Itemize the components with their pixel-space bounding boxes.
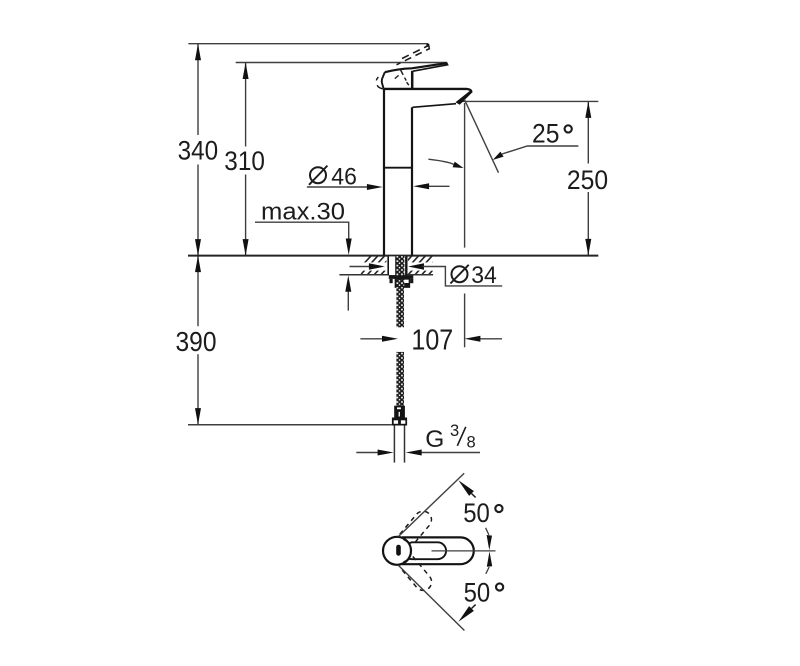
dashed arc left of dome (raised handle)	[376, 77, 378, 83]
dimension 107 arrows	[360, 338, 383, 340]
svg-text:107: 107	[411, 324, 453, 356]
counter underside line	[339, 274, 433, 276]
dimension arrowheads 310	[243, 63, 249, 80]
dashed raised lever bottom edge	[397, 48, 431, 64]
bottom view: handle top view outer left circle	[383, 537, 411, 565]
faucet body right edge	[411, 107, 413, 255]
dimension line 310 vertical	[245, 63, 247, 256]
handle front face	[411, 71, 414, 88]
svg-text:340: 340	[178, 136, 219, 166]
50 degree lower angle line	[398, 565, 464, 630]
dimension arrowheads 340	[195, 44, 201, 61]
label 310	[224, 147, 267, 175]
50 degree upper arrowhead	[458, 480, 474, 496]
counter cross-section hatching	[352, 254, 447, 277]
bottom view outer body	[402, 537, 474, 564]
spout top edge	[384, 89, 471, 91]
extension line top (340 reference at handle max height)	[188, 43, 428, 45]
G3/8 dimension arrows	[356, 452, 381, 454]
50 degree lower arrowhead	[458, 606, 474, 622]
25 degree leader line	[502, 146, 578, 154]
handle lever blade top edge	[385, 63, 447, 72]
max.30 opposing arrow under counter	[347, 292, 349, 311]
dimension line 250 vertical	[587, 101, 589, 255]
dashed raised lever inner strokes	[401, 70, 407, 81]
connection tube G3/8	[393, 426, 395, 463]
svg-text:3: 3	[450, 422, 459, 440]
dimension line 340/390 vertical	[197, 44, 199, 425]
bottom view center mark	[396, 545, 401, 556]
flexible hose braid lower segment	[396, 352, 404, 406]
50 degree upper angle line	[398, 473, 464, 536]
spout aerator tip (filled)	[456, 90, 473, 105]
25 degree curved arrow tail	[428, 159, 454, 164]
handle lever tip and underside	[413, 63, 448, 71]
dashed handle rotated up 50 degrees	[400, 508, 435, 545]
dimension arrowheads 390	[195, 256, 201, 273]
svg-text:50: 50	[463, 498, 490, 528]
extension line (310 reference at handle rest height)	[236, 62, 448, 64]
hose end reference line (390 bottom)	[188, 424, 392, 426]
flexible hose braid upper segment	[396, 287, 404, 327]
faucet body left edge	[383, 89, 385, 256]
extension line spout height (250 top)	[459, 100, 599, 102]
svg-text:G: G	[425, 426, 444, 453]
vertical reference from spout tip	[464, 103, 466, 248]
svg-text:50: 50	[464, 578, 491, 608]
bottom view inner handle outline	[410, 542, 446, 559]
25 degree curved arrowhead	[453, 162, 464, 168]
dashed raised lever top edge	[402, 46, 429, 59]
label 250	[566, 164, 610, 193]
bottom view center line	[432, 550, 496, 552]
handle pivot dome left outline	[382, 72, 385, 89]
svg-text:390: 390	[176, 326, 217, 357]
dashed handle rotated down 50 degrees	[400, 556, 435, 593]
countertop line	[188, 255, 598, 257]
handle dome foot curl	[377, 85, 383, 89]
svg-text:310: 310	[224, 146, 265, 176]
label 340	[177, 135, 220, 165]
label diameter 34	[452, 266, 468, 282]
raised lever tip dot	[426, 44, 429, 47]
faucet body joint line	[384, 167, 412, 169]
diagonal 25-degree spout line	[464, 99, 498, 173]
mounting nut	[396, 279, 404, 287]
diameter 34 arrows	[350, 266, 371, 268]
diameter 46 label underline and arrow	[307, 186, 370, 188]
svg-text:8: 8	[467, 433, 476, 451]
25 degree leader arrowhead	[493, 152, 504, 160]
white halo for diameter 34 arrows	[349, 262, 445, 270]
dimension arrowheads 250	[585, 101, 591, 118]
diameter 46 right arrow	[426, 185, 450, 187]
svg-text:250: 250	[567, 165, 608, 195]
label diameter 46	[310, 167, 326, 183]
washer under counter	[389, 276, 414, 279]
spout underside	[412, 104, 456, 108]
hose connection nut	[392, 418, 407, 426]
label 390	[175, 326, 219, 354]
hose crimp fitting	[394, 406, 405, 418]
bottom view neck junction lines	[404, 539, 410, 543]
svg-text:46: 46	[331, 163, 357, 190]
center line arrows	[486, 528, 489, 535]
svg-text:25: 25	[532, 118, 559, 148]
svg-text:34: 34	[471, 262, 497, 289]
threaded shank in counter hole	[388, 256, 406, 275]
